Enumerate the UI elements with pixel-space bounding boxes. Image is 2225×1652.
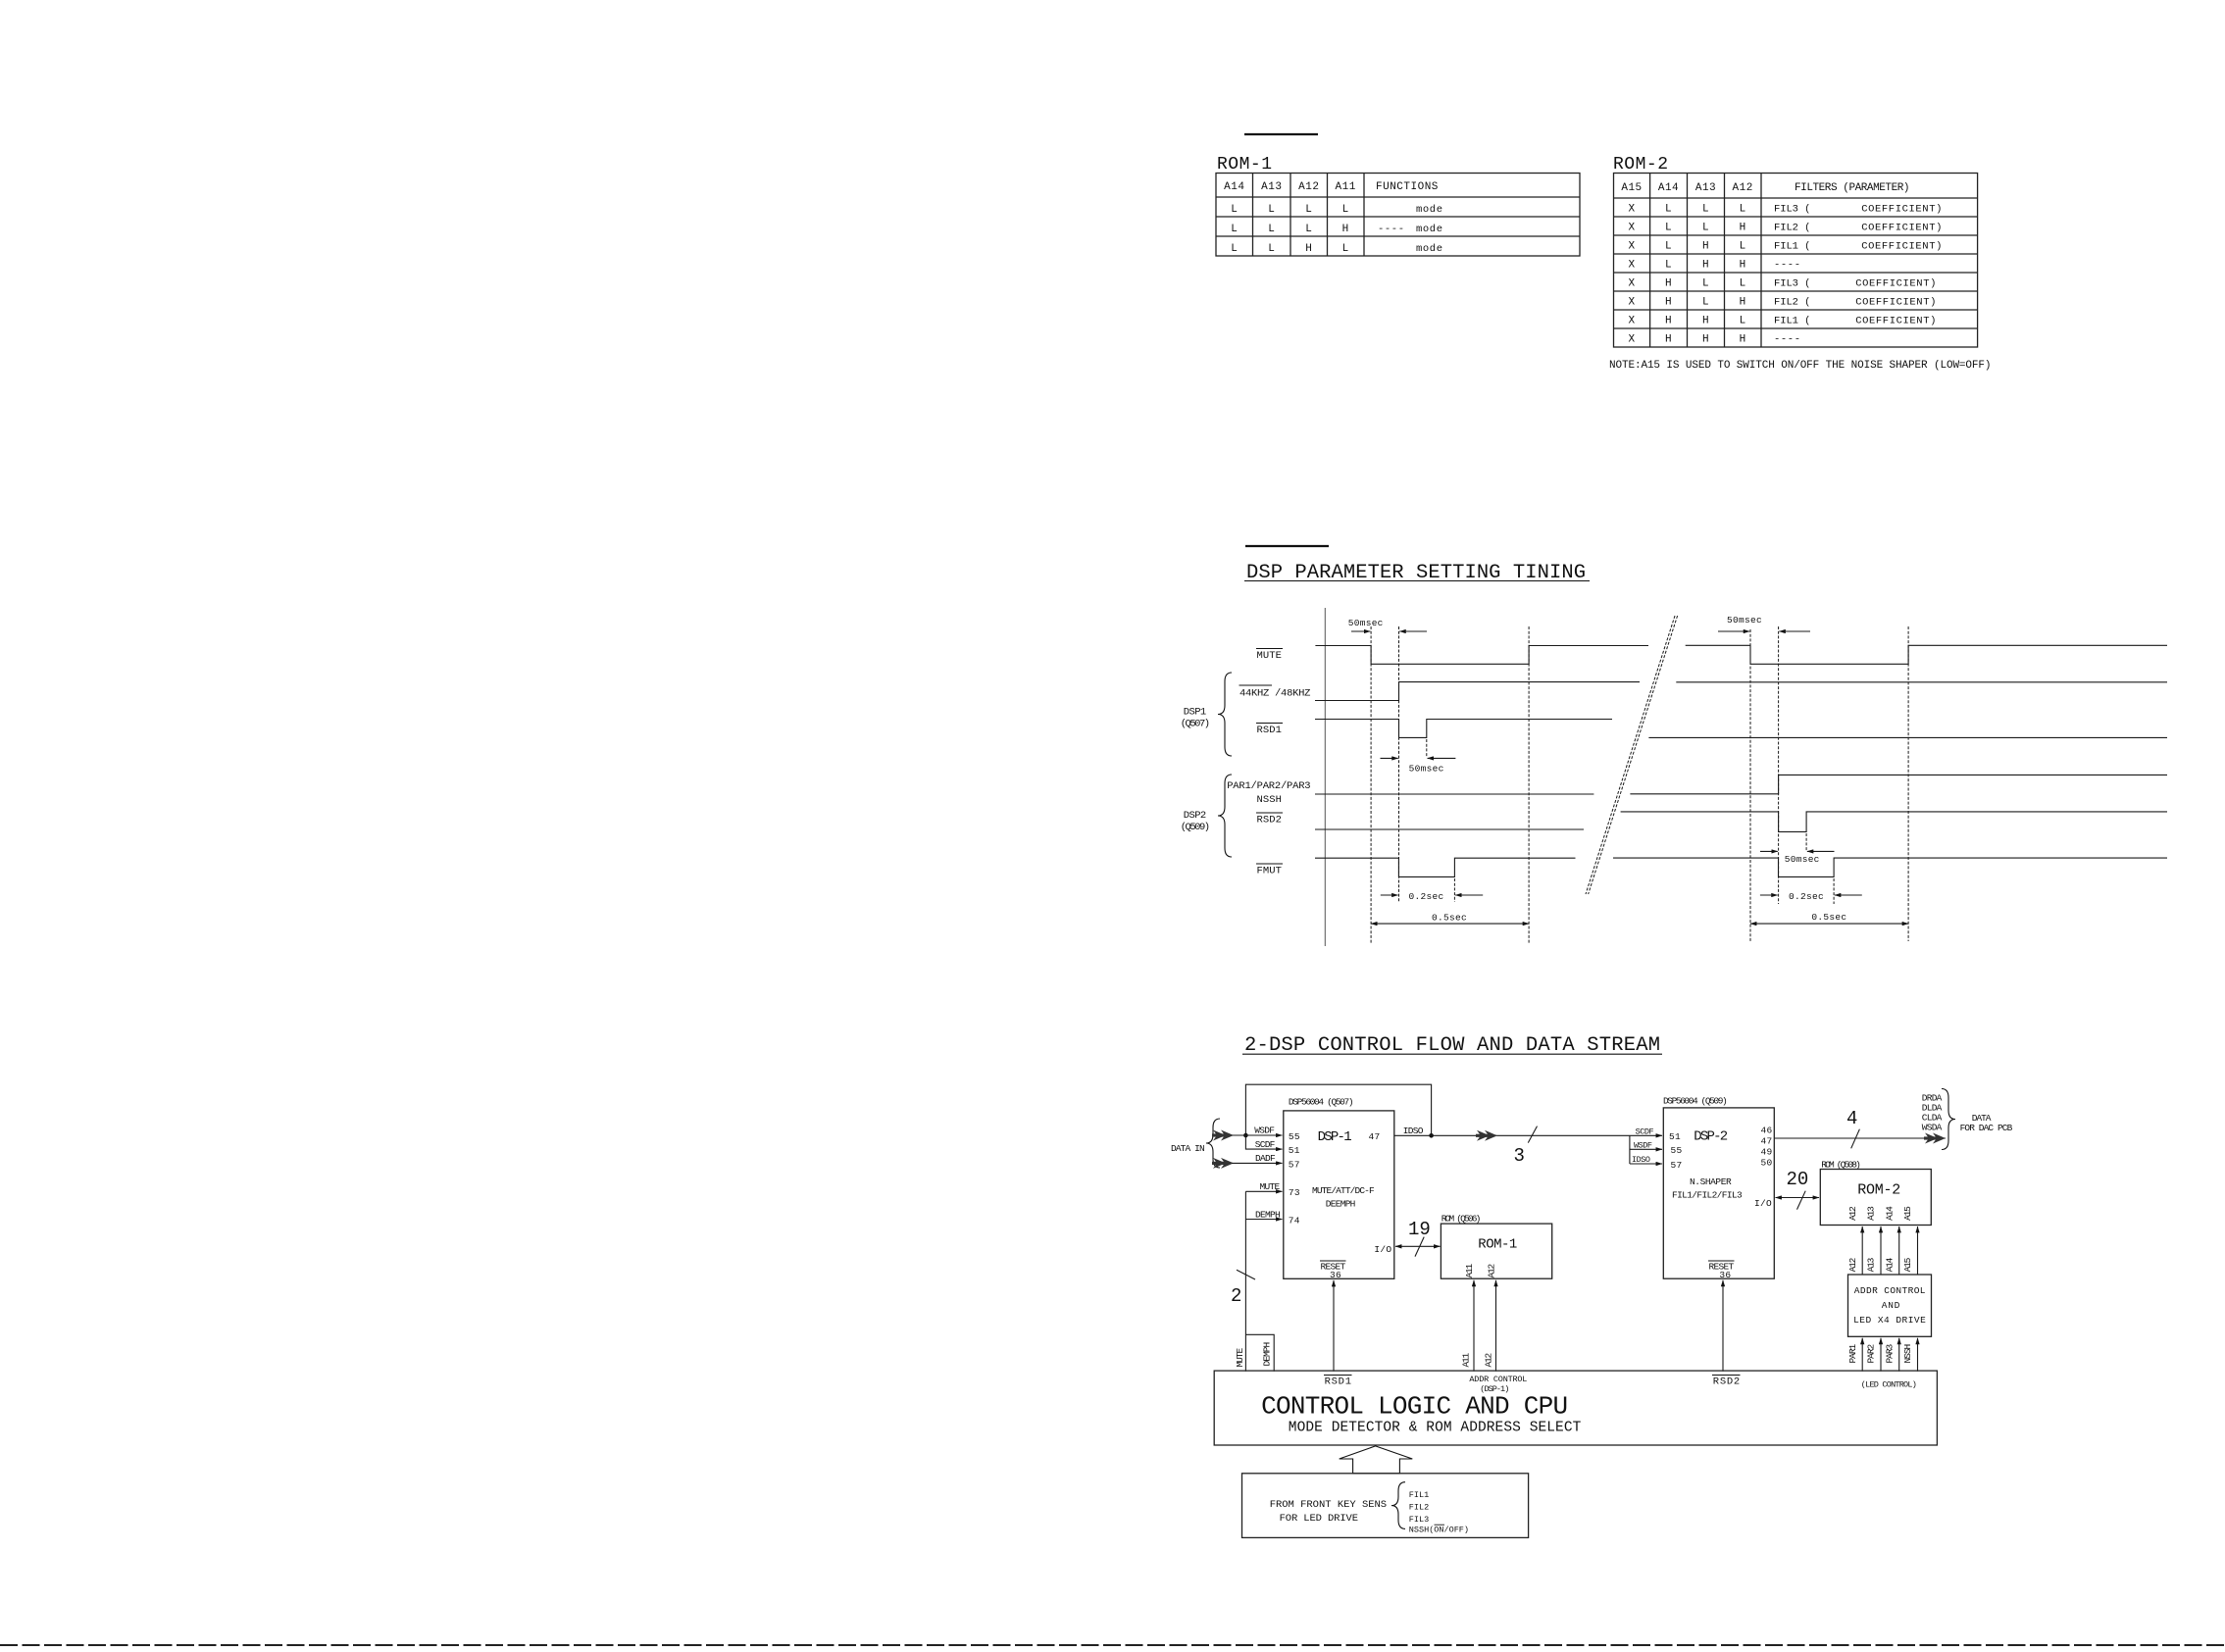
brace data out	[1942, 1089, 1955, 1150]
svg-text:X: X	[1628, 297, 1635, 309]
svg-text:I/O: I/O	[1754, 1198, 1772, 1209]
page bottom dashed border	[0, 1644, 2225, 1646]
svg-text:DSP2: DSP2	[1184, 810, 1207, 822]
svg-text:(DSP-1): (DSP-1)	[1480, 1384, 1509, 1394]
svg-text:50msec: 50msec	[1785, 854, 1820, 865]
svg-text:FIL1: FIL1	[1409, 1490, 1429, 1500]
svg-text:A12: A12	[1733, 182, 1753, 194]
signal RSD1 trace	[1315, 720, 2167, 738]
svg-text:ROM-1: ROM-1	[1478, 1237, 1518, 1253]
svg-text:COEFFICIENT): COEFFICIENT)	[1861, 204, 1943, 216]
svg-text:50: 50	[1761, 1158, 1773, 1169]
svg-text:DSP56004 (Q507): DSP56004 (Q507)	[1289, 1097, 1354, 1108]
svg-text:L: L	[1702, 223, 1709, 234]
svg-text:A12: A12	[1847, 1206, 1858, 1221]
svg-text:H: H	[1740, 334, 1746, 346]
label NSSH (ON/OFF)	[1409, 1525, 1469, 1534]
bus slash 4	[1851, 1129, 1860, 1149]
label DSP2 (Q509)	[1181, 810, 1211, 833]
wire I/O bus DSP-2 to ROM-2	[1776, 1197, 1820, 1199]
svg-text:H: H	[1740, 260, 1746, 272]
wire A15 to ROM-2	[1917, 1226, 1919, 1275]
wire NSSH to ADDR block	[1917, 1338, 1919, 1372]
node junction WSDF	[1243, 1133, 1248, 1138]
block ADDR CONTROL AND LED X4 DRIVE	[1848, 1275, 1932, 1336]
svg-text:RSD2: RSD2	[1257, 815, 1283, 826]
svg-text:SCDF: SCDF	[1636, 1126, 1654, 1136]
svg-text:L: L	[1268, 224, 1275, 235]
big arrow data in WSDF	[1212, 1130, 1234, 1141]
svg-text:A12: A12	[1298, 181, 1319, 193]
svg-text:L: L	[1702, 204, 1709, 216]
svg-text:MUTE: MUTE	[1260, 1181, 1281, 1192]
dashed stub FMUT pulse end left	[1453, 878, 1455, 902]
node junction IDSO	[1429, 1133, 1434, 1138]
svg-text:L: L	[1665, 260, 1672, 272]
table ROM-2	[1614, 174, 1978, 348]
ref dashed line t0 right	[1749, 629, 1751, 941]
svg-text:4: 4	[1846, 1108, 1857, 1129]
svg-text:FMUT: FMUT	[1257, 866, 1283, 877]
svg-text:57: 57	[1671, 1160, 1683, 1171]
svg-text:MUTE/ATT/DC-F: MUTE/ATT/DC-F	[1312, 1185, 1375, 1196]
label RSD2	[1256, 813, 1283, 826]
svg-text:L: L	[1702, 297, 1709, 309]
wire PAR3 to ADDR block	[1898, 1338, 1900, 1372]
brace DATA IN	[1206, 1119, 1220, 1168]
svg-text:WSDA: WSDA	[1922, 1123, 1943, 1133]
dashed stub RSD2 pulse end	[1805, 833, 1807, 851]
svg-text:X: X	[1628, 334, 1635, 346]
wire DADF to pin 57	[1232, 1162, 1283, 1164]
svg-text:A14: A14	[1658, 182, 1679, 194]
wire A11 to ROM-1	[1473, 1280, 1475, 1372]
svg-text:L: L	[1740, 278, 1746, 290]
svg-text:LED X4 DRIVE: LED X4 DRIVE	[1853, 1315, 1926, 1326]
table ROM-1 header text	[1224, 181, 1439, 193]
svg-text:X: X	[1628, 241, 1635, 253]
wire WSDF to DSP-2 pin 55	[1630, 1148, 1662, 1150]
label ADDR CONTROL (DSP-1)	[1469, 1375, 1527, 1394]
svg-text:X: X	[1628, 204, 1635, 216]
big arrow data in DADF	[1212, 1158, 1234, 1169]
svg-text:A13: A13	[1695, 182, 1716, 194]
svg-text:H: H	[1665, 278, 1672, 290]
time break diagonal	[1586, 616, 1678, 894]
svg-text:NSSH(ON/OFF): NSSH(ON/OFF)	[1409, 1526, 1469, 1535]
bus slash 2	[1237, 1270, 1255, 1279]
svg-text:RSD1: RSD1	[1257, 725, 1283, 736]
svg-text:ADDR CONTROL: ADDR CONTROL	[1469, 1375, 1527, 1384]
svg-text:ROM-2: ROM-2	[1857, 1182, 1901, 1199]
svg-text:DATA IN: DATA IN	[1171, 1143, 1205, 1154]
svg-text:COEFFICIENT): COEFFICIENT)	[1855, 297, 1937, 309]
table ROM-1 rows	[1231, 204, 1442, 255]
svg-text:NSSH: NSSH	[1257, 794, 1283, 806]
svg-text:DEEMPH: DEEMPH	[1326, 1199, 1356, 1210]
svg-text:3: 3	[1514, 1145, 1525, 1167]
svg-text:ADDR CONTROL: ADDR CONTROL	[1854, 1285, 1926, 1296]
svg-text:NSSH: NSSH	[1902, 1344, 1913, 1364]
svg-text:19: 19	[1408, 1219, 1431, 1240]
svg-text:L: L	[1305, 224, 1312, 235]
svg-text:X: X	[1628, 278, 1635, 290]
block CONTROL LOGIC AND CPU	[1214, 1371, 1937, 1445]
svg-text:49: 49	[1761, 1147, 1773, 1158]
brace DSP1 group	[1218, 673, 1232, 756]
svg-text:IDSO: IDSO	[1632, 1155, 1650, 1165]
svg-text:COEFFICIENT): COEFFICIENT)	[1861, 223, 1943, 234]
svg-text:H: H	[1702, 260, 1709, 272]
annotation 0.5sec left	[1371, 913, 1529, 925]
svg-text:FIL2: FIL2	[1409, 1502, 1429, 1512]
svg-text:(LED CONTROL): (LED CONTROL)	[1861, 1380, 1917, 1390]
svg-text:mode: mode	[1416, 224, 1443, 235]
svg-text:A15: A15	[1902, 1257, 1913, 1272]
wire PAR1 to ADDR block	[1861, 1338, 1863, 1372]
svg-text:AND: AND	[1882, 1300, 1900, 1311]
svg-text:FILTERS (PARAMETER): FILTERS (PARAMETER)	[1795, 182, 1910, 194]
svg-text:COEFFICIENT): COEFFICIENT)	[1855, 316, 1937, 327]
svg-text:A13: A13	[1866, 1206, 1877, 1221]
bus slash 19	[1415, 1237, 1424, 1257]
svg-text:L: L	[1740, 316, 1746, 327]
svg-text:L: L	[1702, 278, 1709, 290]
tick mark line above timing title	[1245, 545, 1329, 547]
svg-text:H: H	[1665, 316, 1672, 327]
svg-text:55: 55	[1289, 1131, 1300, 1142]
svg-text:H: H	[1665, 334, 1672, 346]
wire A12 to ROM-1	[1495, 1280, 1497, 1372]
big arrow bus 3	[1476, 1130, 1497, 1141]
svg-text:L: L	[1231, 243, 1238, 255]
table ROM-1	[1216, 174, 1580, 257]
svg-text:DEMPH: DEMPH	[1262, 1342, 1273, 1367]
svg-text:DEMPH: DEMPH	[1255, 1209, 1281, 1220]
svg-text:A14: A14	[1884, 1257, 1895, 1272]
wire cell divider DSP-2 inputs	[1629, 1135, 1631, 1164]
svg-text:WSDF: WSDF	[1634, 1141, 1652, 1151]
wire PAR2 to ADDR block	[1880, 1338, 1882, 1372]
block ROM-2 (ROM Q508)	[1820, 1160, 1931, 1226]
svg-text:ROM (Q508): ROM (Q508)	[1821, 1160, 1861, 1171]
svg-text:FIL1 (: FIL1 (	[1774, 316, 1811, 327]
svg-text:FOR LED DRIVE: FOR LED DRIVE	[1280, 1513, 1359, 1525]
ref dashed line t2 left	[1528, 626, 1530, 943]
block FROM FRONT KEY SENS	[1242, 1474, 1529, 1538]
svg-text:X: X	[1628, 260, 1635, 272]
svg-text:CONTROL LOGIC AND CPU: CONTROL LOGIC AND CPU	[1261, 1392, 1571, 1422]
wire IDSO feedback loop over DSP-1	[1245, 1084, 1431, 1135]
svg-text:L: L	[1665, 241, 1672, 253]
svg-text:PAR1: PAR1	[1847, 1344, 1858, 1364]
svg-text:FROM FRONT KEY SENS: FROM FRONT KEY SENS	[1270, 1499, 1388, 1511]
label MUTE	[1256, 649, 1283, 663]
ref dashed line t1 left	[1398, 626, 1400, 902]
label DSP1 (Q507)	[1181, 707, 1211, 730]
block ROM-1 (ROM Q506)	[1441, 1214, 1551, 1279]
svg-text:FIL1/FIL2/FIL3: FIL1/FIL2/FIL3	[1672, 1190, 1743, 1201]
svg-text:0.2sec: 0.2sec	[1789, 891, 1824, 902]
svg-text:DSP1: DSP1	[1184, 707, 1207, 719]
svg-text:X: X	[1628, 316, 1635, 327]
svg-text:L: L	[1342, 204, 1349, 216]
brace DSP2 group	[1218, 775, 1232, 857]
svg-text:DSP-2: DSP-2	[1694, 1129, 1729, 1145]
block DSP-1 (DSP56004 Q507)	[1284, 1097, 1394, 1281]
svg-text:----: ----	[1774, 334, 1801, 346]
wire RSD1 to DSP-1 RESET	[1333, 1280, 1335, 1372]
svg-text:A11: A11	[1461, 1353, 1472, 1368]
svg-text:L: L	[1740, 241, 1746, 253]
svg-text:50msec: 50msec	[1409, 764, 1444, 775]
wire MUTE to pin 73	[1245, 1190, 1282, 1192]
svg-text:NOTE:A15 IS USED TO SWITCH ON/: NOTE:A15 IS USED TO SWITCH ON/OFF THE NO…	[1609, 360, 1992, 372]
annotation 50msec RSD1	[1381, 758, 1456, 774]
timing axis vertical line	[1324, 608, 1326, 946]
wire IDSO DSP-1 pin47 to DSP-2	[1394, 1134, 1662, 1136]
svg-text:50msec: 50msec	[1727, 615, 1762, 626]
svg-text:ROM-1: ROM-1	[1217, 155, 1273, 175]
bus slash 3	[1528, 1126, 1537, 1143]
svg-text:DSP56004 (Q509): DSP56004 (Q509)	[1663, 1096, 1728, 1107]
svg-text:A15: A15	[1621, 182, 1642, 194]
wire WSDF to pin 55	[1232, 1134, 1283, 1136]
svg-text:73: 73	[1289, 1187, 1300, 1198]
svg-text:RSD2: RSD2	[1713, 1377, 1741, 1388]
svg-text:51: 51	[1289, 1145, 1300, 1156]
ref dashed line t0 left	[1370, 626, 1372, 943]
svg-text:DADF: DADF	[1255, 1153, 1276, 1164]
dashed stub FMUT pulse end right	[1833, 878, 1835, 904]
svg-text:A13: A13	[1261, 181, 1282, 193]
ref dashed line t1 right	[1778, 626, 1780, 904]
svg-text:(Q507): (Q507)	[1181, 719, 1211, 730]
svg-text:20: 20	[1787, 1169, 1809, 1190]
signal 44KHZ/48KHZ trace	[1315, 682, 2167, 701]
svg-text:L: L	[1231, 204, 1238, 216]
label RSD1	[1256, 724, 1283, 737]
signal FMUT trace	[1315, 858, 2167, 876]
svg-text:47: 47	[1761, 1136, 1773, 1147]
svg-text:A11: A11	[1464, 1264, 1475, 1278]
svg-text:X: X	[1628, 223, 1635, 234]
svg-text:RSD1: RSD1	[1325, 1377, 1352, 1388]
svg-text:COEFFICIENT): COEFFICIENT)	[1855, 278, 1937, 290]
svg-text:H: H	[1305, 243, 1312, 255]
svg-text:DSP-1: DSP-1	[1318, 1129, 1353, 1145]
wire SCDF to pin 51	[1245, 1135, 1282, 1149]
svg-text:FIL2 (: FIL2 (	[1774, 223, 1811, 234]
tick mark line above ROM-1	[1244, 133, 1318, 135]
svg-text:ROM (Q506): ROM (Q506)	[1441, 1214, 1482, 1225]
annotation 0.5sec right	[1750, 912, 1908, 924]
svg-text:FIL2 (: FIL2 (	[1774, 297, 1811, 309]
svg-text:A15: A15	[1902, 1206, 1913, 1221]
svg-text:ROM-2: ROM-2	[1613, 155, 1669, 175]
svg-text:A11: A11	[1336, 181, 1356, 193]
svg-text:46: 46	[1761, 1126, 1773, 1136]
signal PAR1/PAR2/PAR3 NSSH trace	[1315, 775, 2167, 794]
svg-text:0.2sec: 0.2sec	[1409, 891, 1444, 902]
svg-text:H: H	[1702, 316, 1709, 327]
svg-text:H: H	[1665, 297, 1672, 309]
svg-text:L: L	[1665, 204, 1672, 216]
svg-text:L: L	[1740, 204, 1746, 216]
svg-text:H: H	[1740, 297, 1746, 309]
annotation 50msec top-right	[1718, 615, 1810, 631]
svg-text:FOR DAC PCB: FOR DAC PCB	[1960, 1123, 2013, 1133]
table ROM-2 header text	[1621, 182, 1910, 194]
svg-text:mode: mode	[1416, 243, 1443, 255]
block DSP-2 (DSP56004 Q509)	[1663, 1096, 1774, 1281]
svg-text:55: 55	[1671, 1145, 1683, 1156]
label FMUT	[1256, 864, 1283, 877]
svg-text:51: 51	[1669, 1131, 1681, 1142]
svg-text:FUNCTIONS: FUNCTIONS	[1376, 181, 1439, 193]
wire IDSO to DSP-2 pin 57	[1630, 1163, 1662, 1165]
wire A14 to ROM-2	[1898, 1226, 1900, 1275]
svg-text:N.SHAPER: N.SHAPER	[1690, 1176, 1732, 1187]
svg-text:H: H	[1740, 223, 1746, 234]
svg-text:----: ----	[1378, 224, 1405, 235]
svg-text:FIL3: FIL3	[1409, 1515, 1429, 1525]
label RSD2	[1712, 1376, 1741, 1388]
bus slash 20	[1797, 1191, 1806, 1210]
svg-text:SCDF: SCDF	[1255, 1139, 1276, 1150]
svg-text:PAR3: PAR3	[1884, 1344, 1895, 1364]
wire A13 to ROM-2	[1880, 1226, 1882, 1275]
block diagram title	[1242, 1034, 1662, 1057]
svg-text:H: H	[1342, 224, 1349, 235]
dashed stub RSD1 pulse end	[1426, 739, 1428, 757]
labels DRDA DLDA CLDA WSDA	[1922, 1093, 1943, 1133]
svg-text:L: L	[1268, 204, 1275, 216]
svg-text:H: H	[1702, 241, 1709, 253]
wire DATA out to DAC	[1774, 1137, 1946, 1139]
label DATA FOR DAC PCB	[1960, 1113, 2013, 1133]
svg-text:A12: A12	[1484, 1353, 1494, 1368]
label RSD1	[1324, 1376, 1352, 1388]
svg-text:44KHZ /48KHZ: 44KHZ /48KHZ	[1239, 688, 1311, 700]
svg-text:0.5sec: 0.5sec	[1811, 912, 1846, 923]
svg-text:L: L	[1342, 243, 1349, 255]
svg-text:50msec: 50msec	[1348, 618, 1384, 628]
wire MUTE/DEMPH bus vertical	[1244, 1191, 1246, 1371]
signal MUTE trace	[1315, 645, 2167, 664]
svg-text:A12: A12	[1487, 1264, 1497, 1278]
svg-text:47: 47	[1369, 1131, 1381, 1142]
svg-text:36: 36	[1330, 1270, 1341, 1280]
signal RSD2 trace	[1315, 812, 2167, 832]
svg-text:36: 36	[1719, 1270, 1731, 1280]
wire DEMPH branch at bottom	[1245, 1334, 1274, 1371]
wire RSD2 to DSP-2 RESET	[1722, 1280, 1724, 1372]
label 44KHZ/48KHZ	[1239, 685, 1312, 700]
svg-text:MODE DETECTOR & ROM ADDRESS SE: MODE DETECTOR & ROM ADDRESS SELECT	[1289, 1421, 1582, 1436]
svg-text:L: L	[1268, 243, 1275, 255]
annotation 0.2sec left	[1381, 891, 1483, 902]
svg-text:WSDF: WSDF	[1254, 1126, 1275, 1136]
svg-text:57: 57	[1289, 1160, 1300, 1171]
svg-text:A12: A12	[1847, 1257, 1858, 1272]
svg-text:L: L	[1231, 224, 1238, 235]
table ROM-2 rows	[1628, 204, 1943, 346]
annotation 0.2sec right	[1760, 891, 1862, 902]
big arrow data out	[1924, 1133, 1946, 1144]
svg-text:PAR1/PAR2/PAR3: PAR1/PAR2/PAR3	[1227, 780, 1311, 792]
svg-text:H: H	[1702, 334, 1709, 346]
svg-text:2-DSP CONTROL FLOW AND DATA ST: 2-DSP CONTROL FLOW AND DATA STREAM	[1244, 1034, 1662, 1057]
svg-text:FIL3 (: FIL3 (	[1774, 204, 1811, 216]
svg-text:MUTE: MUTE	[1257, 650, 1283, 662]
svg-text:FIL3 (: FIL3 (	[1774, 278, 1811, 290]
svg-text:mode: mode	[1416, 204, 1443, 216]
brace key functions	[1391, 1482, 1405, 1529]
svg-text:0.5sec: 0.5sec	[1432, 913, 1467, 924]
svg-text:74: 74	[1289, 1216, 1300, 1226]
wire A12 to ROM-2	[1861, 1226, 1863, 1275]
svg-text:A13: A13	[1866, 1257, 1877, 1272]
big arrow from key sens to control logic	[1340, 1446, 1413, 1474]
annotation 50msec RSD2	[1760, 851, 1835, 865]
svg-text:FIL1 (: FIL1 (	[1774, 241, 1811, 253]
svg-text:(Q509): (Q509)	[1181, 822, 1211, 833]
svg-text:I/O: I/O	[1374, 1244, 1391, 1255]
annotation 50msec top-left	[1348, 618, 1427, 631]
svg-text:L: L	[1665, 223, 1672, 234]
svg-text:A14: A14	[1224, 181, 1244, 193]
wire DEMPH to pin 74	[1245, 1219, 1282, 1221]
svg-text:2: 2	[1231, 1285, 1241, 1307]
svg-text:----: ----	[1774, 260, 1801, 272]
ref dashed line t2 right	[1907, 626, 1909, 941]
timing section title	[1244, 562, 1590, 584]
wire I/O bus DSP-1 to ROM-1	[1395, 1245, 1441, 1247]
svg-text:L: L	[1305, 204, 1312, 216]
svg-text:PAR2: PAR2	[1866, 1344, 1877, 1364]
svg-text:MUTE: MUTE	[1235, 1348, 1245, 1368]
svg-text:A14: A14	[1884, 1206, 1895, 1221]
svg-text:COEFFICIENT): COEFFICIENT)	[1861, 241, 1943, 253]
svg-text:IDSO: IDSO	[1403, 1126, 1424, 1136]
